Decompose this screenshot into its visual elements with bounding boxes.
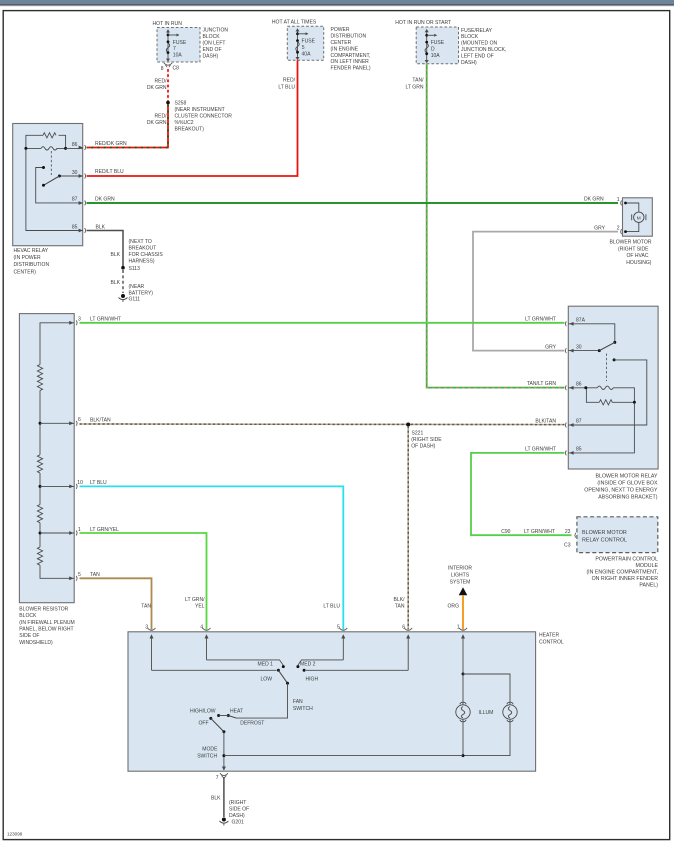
svg-text:HOUSING): HOUSING) bbox=[626, 260, 652, 266]
HVAC relay pin labels 86 30 87 85 bbox=[72, 142, 78, 230]
svg-text:TAN/LT GRN: TAN/LT GRN bbox=[527, 381, 557, 387]
svg-text:6: 6 bbox=[402, 624, 405, 630]
heater control box bbox=[128, 632, 564, 771]
svg-text:5: 5 bbox=[78, 572, 81, 578]
svg-text:BATTERY): BATTERY) bbox=[129, 291, 154, 297]
svg-text:HARNESS): HARNESS) bbox=[129, 258, 155, 264]
svg-text:WINDSHIELD): WINDSHIELD) bbox=[19, 640, 53, 646]
svg-text:BLK: BLK bbox=[110, 280, 120, 286]
svg-text:BLOWER MOTOR: BLOWER MOTOR bbox=[582, 530, 627, 536]
svg-text:RELAY CONTROL: RELAY CONTROL bbox=[582, 538, 627, 544]
svg-text:RED/LT BLU: RED/LT BLU bbox=[95, 169, 124, 175]
interior lights system (off-page arrow) bbox=[448, 565, 472, 595]
svg-text:LT GRN/WHT: LT GRN/WHT bbox=[524, 529, 555, 535]
svg-text:(NEAR: (NEAR bbox=[129, 284, 145, 290]
svg-text:BLOCK: BLOCK bbox=[203, 34, 221, 40]
svg-text:HIGH: HIGH bbox=[306, 677, 319, 683]
HVAC relay pin connectors (right edge) bbox=[79, 145, 86, 233]
blower motor relay armature (dashed link) bbox=[606, 354, 608, 382]
svg-text:MODULE: MODULE bbox=[636, 563, 659, 569]
svg-text:C3: C3 bbox=[564, 543, 571, 549]
svg-text:ILLUM: ILLUM bbox=[479, 710, 494, 716]
svg-text:CENTER: CENTER bbox=[331, 40, 352, 46]
wire DK GRN from HVAC relay pin 87 to blower motor pin 1 bbox=[87, 196, 619, 203]
ground G201 bbox=[219, 818, 244, 826]
svg-text:HEATER: HEATER bbox=[539, 633, 559, 639]
svg-text:GRY: GRY bbox=[594, 225, 605, 231]
svg-text:RED/: RED/ bbox=[154, 78, 167, 84]
svg-text:BLOWER RESISTOR: BLOWER RESISTOR bbox=[19, 606, 68, 612]
svg-text:MODE: MODE bbox=[202, 746, 218, 752]
svg-text:RED/DK GRN: RED/DK GRN bbox=[95, 141, 127, 147]
wire ORG from heater control pin 1 to interior lights system bbox=[448, 595, 464, 630]
wire RED/LT BLU from fuse 5 to HVAC relay pin 30 bbox=[87, 60, 298, 176]
svg-text:LT GRN/YEL: LT GRN/YEL bbox=[90, 527, 119, 533]
svg-text:(IN ENGINE COMPARTMENT,: (IN ENGINE COMPARTMENT, bbox=[586, 570, 658, 576]
svg-text:S221: S221 bbox=[412, 431, 424, 437]
svg-text:HIGH/LOW: HIGH/LOW bbox=[190, 708, 216, 714]
svg-text:23: 23 bbox=[565, 529, 571, 535]
svg-text:C90: C90 bbox=[501, 529, 510, 535]
svg-text:CONTROL: CONTROL bbox=[539, 640, 564, 646]
heater control pin connectors 3 4 5 6 1 (top edge) bbox=[145, 624, 467, 630]
blower motor relay coil with parallel resistor (pins 86/85) bbox=[568, 386, 636, 453]
svg-text:M: M bbox=[637, 215, 641, 221]
svg-text:TAN: TAN bbox=[395, 604, 405, 610]
HVAC relay (in power distribution center) bbox=[13, 124, 83, 276]
svg-text:FUSE: FUSE bbox=[302, 39, 316, 45]
svg-text:FUSE: FUSE bbox=[431, 40, 445, 46]
svg-text:BLOCK: BLOCK bbox=[461, 34, 479, 40]
splice S258 bbox=[166, 101, 232, 133]
svg-text:87: 87 bbox=[576, 419, 582, 425]
wire LT GRN/WHT from blower motor relay pin 85 to PCM pin 23 bbox=[471, 447, 572, 549]
svg-text:DK GRN: DK GRN bbox=[147, 85, 167, 91]
wire LT GRN/YEL from blower resistor pin 1 to heater control pin 4 bbox=[80, 527, 207, 630]
wire BLK from HVAC relay pin 85 to S113 bbox=[87, 224, 164, 266]
svg-text:(RIGHT SIDE: (RIGHT SIDE bbox=[618, 246, 649, 252]
svg-text:BREAKOUT: BREAKOUT bbox=[129, 245, 157, 251]
svg-text:OF DASH): OF DASH) bbox=[411, 443, 435, 449]
svg-text:DK GRN: DK GRN bbox=[584, 196, 604, 202]
svg-text:30: 30 bbox=[576, 344, 582, 350]
svg-text:87: 87 bbox=[72, 197, 78, 203]
svg-text:(ON LEFT: (ON LEFT bbox=[203, 41, 226, 47]
svg-text:FENDER PANEL): FENDER PANEL) bbox=[331, 66, 371, 72]
svg-text:SWITCH: SWITCH bbox=[197, 753, 217, 759]
HVAC relay switch (pins 30/87) bbox=[26, 148, 83, 230]
svg-text:BLOWER MOTOR RELAY: BLOWER MOTOR RELAY bbox=[596, 473, 658, 479]
svg-text:MED 1: MED 1 bbox=[258, 662, 274, 668]
svg-text:1: 1 bbox=[617, 197, 620, 203]
illumination lamp right bbox=[479, 702, 518, 722]
blower motor relay pin arrows and connectors (left edge) bbox=[565, 321, 573, 455]
svg-text:6: 6 bbox=[78, 417, 81, 423]
svg-text:3: 3 bbox=[145, 624, 148, 630]
svg-text:TAN: TAN bbox=[90, 572, 100, 578]
svg-text:FUSE: FUSE bbox=[173, 40, 187, 46]
svg-text:FOR CHASSIS: FOR CHASSIS bbox=[129, 252, 164, 258]
heater mode switch (OFF/HIGH-LOW/HEAT/DEFROST) bbox=[190, 708, 264, 770]
blower motor relay (inside of glove box opening) bbox=[568, 306, 658, 500]
junction block (fuse box, on left end of dash) bbox=[153, 21, 229, 62]
svg-text:(NEXT TO: (NEXT TO bbox=[129, 239, 152, 245]
wire RED/DK GRN from fuse 7 to splice S258 bbox=[147, 67, 168, 102]
svg-text:123099: 123099 bbox=[7, 832, 23, 837]
svg-text:FUSE/RELAY: FUSE/RELAY bbox=[461, 28, 493, 34]
svg-text:INTERIOR: INTERIOR bbox=[448, 565, 472, 571]
power distribution center (fuse box) bbox=[272, 20, 371, 72]
svg-text:RED/: RED/ bbox=[154, 114, 167, 120]
svg-text:ABSORBING BRACKET): ABSORBING BRACKET) bbox=[598, 495, 657, 501]
svg-text:END OF: END OF bbox=[203, 47, 222, 53]
svg-text:1: 1 bbox=[78, 527, 81, 533]
connector C8 pin 8 bbox=[161, 63, 179, 72]
svg-text:%%UC2: %%UC2 bbox=[175, 120, 194, 126]
svg-text:LT BLU: LT BLU bbox=[323, 604, 340, 610]
heater control pin 7 connector (bottom edge) bbox=[216, 773, 228, 781]
svg-text:ON RIGHT INNER FENDER: ON RIGHT INNER FENDER bbox=[592, 576, 659, 582]
svg-text:BLK: BLK bbox=[110, 252, 120, 258]
svg-text:40A: 40A bbox=[302, 51, 312, 57]
svg-text:CENTER): CENTER) bbox=[14, 269, 37, 275]
svg-text:10: 10 bbox=[77, 480, 83, 486]
svg-text:LT GRN/WHT: LT GRN/WHT bbox=[525, 447, 556, 453]
svg-text:86: 86 bbox=[576, 382, 582, 388]
svg-text:10A: 10A bbox=[173, 53, 183, 59]
wire TAN from blower resistor pin 5 to heater control pin 3 bbox=[80, 572, 152, 629]
wire BLK/TAN from blower resistor pin 6 to blower motor relay pin 87 bbox=[80, 418, 565, 425]
svg-text:BLOCK: BLOCK bbox=[19, 613, 37, 619]
svg-text:BREAKOUT): BREAKOUT) bbox=[175, 127, 205, 133]
svg-text:S258: S258 bbox=[175, 101, 187, 107]
svg-text:ON LEFT INNER: ON LEFT INNER bbox=[331, 59, 370, 65]
svg-text:TAN: TAN bbox=[141, 604, 151, 610]
svg-text:7: 7 bbox=[216, 775, 219, 781]
svg-text:LT GRN/WHT: LT GRN/WHT bbox=[525, 317, 556, 323]
splice S113 bbox=[121, 266, 140, 272]
svg-text:30: 30 bbox=[72, 170, 78, 176]
svg-text:LT BLU: LT BLU bbox=[90, 480, 107, 486]
svg-text:86: 86 bbox=[72, 142, 78, 148]
svg-text:PANEL, BELOW RIGHT: PANEL, BELOW RIGHT bbox=[19, 627, 73, 633]
svg-text:ORG: ORG bbox=[448, 604, 460, 610]
blower resistor chain (4 resistors) bbox=[37, 323, 74, 579]
blower resistor pin labels 3 6 10 1 5 bbox=[77, 317, 83, 579]
svg-text:YEL: YEL bbox=[195, 604, 205, 610]
svg-text:COMPARTMENT,: COMPARTMENT, bbox=[331, 53, 371, 59]
blower motor pin labels 1 2 bbox=[617, 197, 620, 232]
blower resistor block (in firewall plenum panel) bbox=[19, 314, 74, 646]
svg-text:LT GRN: LT GRN bbox=[405, 84, 423, 90]
svg-text:(MOUNTED ON: (MOUNTED ON bbox=[461, 41, 498, 47]
svg-text:S113: S113 bbox=[129, 266, 141, 272]
svg-text:(IN FIREWALL PLENUM: (IN FIREWALL PLENUM bbox=[19, 620, 74, 626]
svg-text:(RIGHT: (RIGHT bbox=[229, 800, 246, 806]
svg-text:OF HVAC: OF HVAC bbox=[626, 253, 648, 259]
svg-text:CLUSTER CONNECTOR: CLUSTER CONNECTOR bbox=[175, 114, 233, 120]
HVAC relay armature (dashed link) bbox=[50, 151, 52, 175]
svg-text:LOW: LOW bbox=[261, 677, 273, 683]
svg-text:POWERTRAIN CONTROL: POWERTRAIN CONTROL bbox=[595, 556, 658, 562]
svg-text:MED 2: MED 2 bbox=[300, 662, 316, 668]
svg-text:BLOWER MOTOR: BLOWER MOTOR bbox=[610, 240, 652, 246]
svg-text:DK GRN: DK GRN bbox=[95, 196, 115, 202]
svg-text:BLK/TAN: BLK/TAN bbox=[90, 418, 111, 424]
wire BLK from heater control pin 7 to ground G201 bbox=[211, 777, 249, 819]
svg-text:C8: C8 bbox=[173, 66, 180, 72]
svg-text:85: 85 bbox=[72, 224, 78, 230]
svg-text:DASH): DASH) bbox=[461, 60, 477, 66]
illumination lamps circuit bbox=[224, 673, 510, 758]
svg-text:LT BLU: LT BLU bbox=[278, 84, 295, 90]
svg-text:TAN/: TAN/ bbox=[412, 78, 424, 84]
svg-text:POWER: POWER bbox=[331, 27, 350, 33]
svg-text:5: 5 bbox=[337, 624, 340, 630]
wire LT GRN/WHT from blower motor relay pin 87A to blower resistor pin 3 bbox=[80, 317, 565, 323]
svg-text:G111: G111 bbox=[129, 297, 141, 303]
wire TAN/LT GRN from fuse D to blower motor relay pin 86 bbox=[405, 63, 564, 387]
svg-text:LEFT END OF: LEFT END OF bbox=[461, 53, 494, 59]
svg-text:JUNCTION BLOCK,: JUNCTION BLOCK, bbox=[461, 47, 506, 53]
svg-text:(RIGHT SIDE: (RIGHT SIDE bbox=[411, 437, 442, 443]
svg-text:BLK/: BLK/ bbox=[394, 597, 406, 603]
fuse/relay block (fuse box, mounted on junction block) bbox=[395, 20, 506, 66]
svg-text:4: 4 bbox=[200, 624, 203, 630]
heater control pin stubs with up arrows bbox=[150, 634, 466, 674]
svg-text:DASH): DASH) bbox=[203, 54, 219, 60]
wire GRY from blower motor pin 2 to blower motor relay pin 30 bbox=[473, 225, 618, 350]
svg-text:DISTRIBUTION: DISTRIBUTION bbox=[14, 262, 50, 268]
svg-text:(IN POWER: (IN POWER bbox=[14, 255, 42, 261]
svg-text:1: 1 bbox=[457, 624, 460, 630]
svg-text:8: 8 bbox=[161, 66, 164, 72]
svg-text:JUNCTION: JUNCTION bbox=[203, 28, 229, 34]
svg-text:(INSIDE OF GLOVE BOX: (INSIDE OF GLOVE BOX bbox=[597, 480, 658, 486]
svg-text:RED/: RED/ bbox=[283, 78, 296, 84]
svg-text:FAN: FAN bbox=[293, 699, 303, 705]
blower motor relay switch (87A/30/87) bbox=[568, 324, 647, 425]
heater fan switch (LOW/MED1/MED2/HIGH) bbox=[152, 660, 409, 718]
svg-text:HEVAC RELAY: HEVAC RELAY bbox=[14, 248, 49, 254]
svg-text:LT GRN/WHT: LT GRN/WHT bbox=[90, 317, 121, 323]
svg-text:SIDE OF: SIDE OF bbox=[19, 633, 39, 639]
ground G111 bbox=[119, 294, 141, 303]
svg-text:5: 5 bbox=[302, 45, 305, 51]
PCM pin 23 connector C90 bbox=[574, 533, 577, 538]
svg-text:G201: G201 bbox=[232, 819, 245, 825]
blower motor M symbol bbox=[621, 201, 646, 234]
fuse 5 40A (power distribution center) bbox=[296, 28, 316, 60]
svg-text:BLK/TAN: BLK/TAN bbox=[535, 418, 556, 424]
svg-text:BLK: BLK bbox=[96, 224, 106, 230]
blower resistor pin arrows and connectors (right edge) bbox=[69, 320, 77, 580]
wire BLK from S113 to ground G111 bbox=[110, 270, 153, 297]
svg-text:HOT IN RUN: HOT IN RUN bbox=[153, 21, 183, 27]
svg-text:OFF: OFF bbox=[199, 721, 209, 727]
svg-text:HEAT: HEAT bbox=[230, 708, 243, 714]
svg-text:SWITCH: SWITCH bbox=[293, 706, 313, 712]
svg-text:HOT AT ALL TIMES: HOT AT ALL TIMES bbox=[272, 20, 317, 26]
blower motor (right side of HVAC housing) bbox=[610, 198, 653, 266]
svg-text:BLK: BLK bbox=[211, 795, 221, 801]
svg-text:(IN ENGINE: (IN ENGINE bbox=[331, 46, 359, 52]
svg-text:LT GRN/: LT GRN/ bbox=[185, 597, 205, 603]
powertrain control module (PCM) box bbox=[577, 517, 659, 589]
wire BLK/TAN from S221 to heater control pin 6 bbox=[394, 426, 409, 629]
svg-text:85: 85 bbox=[576, 447, 582, 453]
svg-text:HOT IN RUN OR START: HOT IN RUN OR START bbox=[395, 20, 451, 26]
svg-text:LIGHTS: LIGHTS bbox=[451, 572, 470, 578]
svg-text:7: 7 bbox=[173, 46, 176, 52]
wire RED/DK GRN from S258 to HVAC relay pin 86 bbox=[87, 104, 169, 147]
svg-text:DISTRIBUTION: DISTRIBUTION bbox=[331, 34, 367, 40]
svg-text:D: D bbox=[431, 47, 435, 53]
fuse D 10A (fuse/relay block) bbox=[425, 29, 445, 63]
svg-text:3: 3 bbox=[78, 317, 81, 323]
wire LT BLU from blower resistor pin 10 to heater control pin 5 bbox=[80, 480, 344, 630]
splice S221 bbox=[406, 423, 442, 450]
svg-text:DK GRN: DK GRN bbox=[147, 120, 167, 126]
HVAC relay coil with parallel resistor bbox=[24, 133, 67, 150]
svg-text:87A: 87A bbox=[576, 318, 586, 324]
svg-text:OPENING, NEXT TO ENERGY: OPENING, NEXT TO ENERGY bbox=[584, 488, 658, 494]
svg-text:DASH): DASH) bbox=[229, 813, 245, 819]
svg-text:(NEAR INSTRUMENT: (NEAR INSTRUMENT bbox=[175, 107, 225, 113]
svg-text:10A: 10A bbox=[431, 53, 441, 59]
illumination lamp left bbox=[456, 702, 470, 722]
blower motor relay pin labels 87A 30 86 87 85 bbox=[576, 318, 586, 453]
svg-text:DEFROST: DEFROST bbox=[240, 721, 264, 727]
svg-text:SYSTEM: SYSTEM bbox=[450, 579, 471, 585]
fuse 7 10A (junction block) bbox=[166, 29, 187, 62]
svg-text:PANEL): PANEL) bbox=[639, 583, 658, 589]
svg-text:GRY: GRY bbox=[545, 344, 556, 350]
svg-text:SIDE OF: SIDE OF bbox=[229, 807, 249, 813]
